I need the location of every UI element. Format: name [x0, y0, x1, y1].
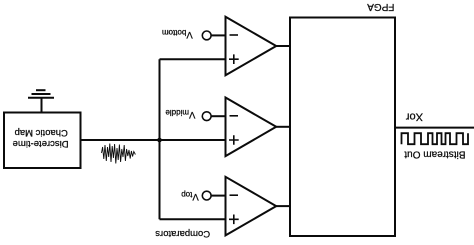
svg-text:Chaotic Map: Chaotic Map — [15, 127, 68, 138]
svg-text:Discrete-time: Discrete-time — [13, 138, 69, 149]
svg-text:Comparators: Comparators — [155, 228, 210, 239]
svg-text:Xor: Xor — [406, 111, 423, 123]
svg-text:FPGA: FPGA — [367, 1, 395, 12]
svg-text:Bitstream Out: Bitstream Out — [404, 149, 465, 160]
